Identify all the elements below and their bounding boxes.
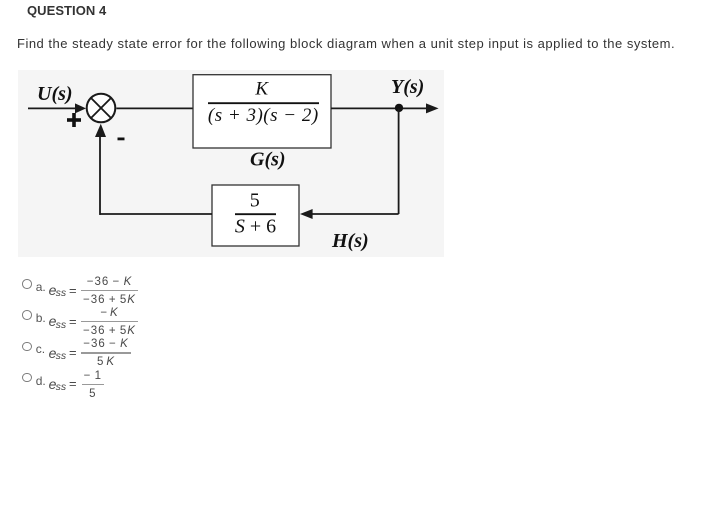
option c radio — [22, 342, 32, 352]
option d radio — [22, 373, 32, 383]
option c formula — [49, 346, 57, 360]
option a label — [36, 281, 46, 293]
diagram panel — [18, 70, 444, 257]
svg-text:S + 6: S + 6 — [235, 216, 276, 238]
option a formula — [49, 283, 57, 297]
option a radio — [22, 279, 32, 289]
svg-text:(s + 3)(s − 2): (s + 3)(s − 2) — [208, 105, 319, 126]
minus sign — [118, 138, 125, 141]
wire: junction to G block — [116, 107, 193, 109]
plus sign — [67, 118, 81, 122]
option b radio — [22, 310, 32, 320]
option b formula — [49, 314, 57, 328]
block H — [212, 185, 299, 246]
svg-text:G(s): G(s) — [250, 148, 286, 170]
svg-text:H(s): H(s) — [331, 230, 369, 252]
option d formula — [49, 377, 57, 391]
svg-text:K: K — [254, 79, 269, 100]
title — [27, 4, 106, 17]
wire: G block to output arrow — [331, 107, 428, 109]
wire: node down — [398, 108, 400, 214]
wire: H block left to corner — [100, 213, 213, 215]
wire: input arrow into summing junction — [28, 107, 77, 109]
wire: up into junction with arrow — [99, 136, 101, 215]
summing junction — [87, 94, 116, 123]
wire: right horizontal to H block with arrow — [312, 213, 399, 215]
svg-text:Y(s): Y(s) — [391, 76, 424, 98]
option b label — [36, 312, 46, 324]
svg-text:U(s): U(s) — [37, 83, 73, 105]
node: output pick-off — [395, 104, 403, 112]
block G — [193, 75, 331, 148]
svg-text:5: 5 — [250, 190, 260, 212]
option d label — [36, 375, 46, 387]
prompt — [17, 37, 675, 50]
option c label — [36, 343, 45, 355]
